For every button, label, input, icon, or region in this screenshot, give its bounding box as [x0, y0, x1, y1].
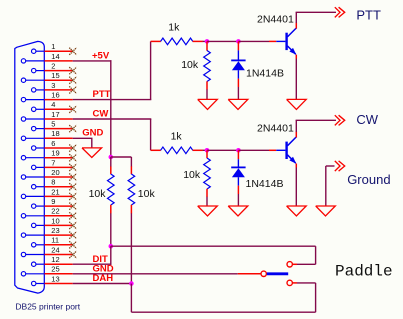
- wire DAH loop bottom: [131, 283, 315, 312]
- wire Q1 collector up: [296, 12, 336, 28]
- node C junction (R3/R4): [205, 148, 210, 153]
- pin 20 of J1 (circle, stub, number label): [21, 168, 59, 179]
- svg-text:15: 15: [51, 71, 59, 80]
- wire GND pin25 red segment: [45, 273, 73, 275]
- wire R6 bottom to DAH node: [130, 213, 132, 283]
- wire DAH pin13 to junction: [73, 283, 132, 285]
- wire DAH pin13 red segment: [45, 283, 73, 285]
- node junction DAH / paddle bottom: [129, 281, 134, 286]
- wire PTT pin16 to R1: [73, 99, 152, 101]
- svg-text:1N414B: 1N414B: [246, 178, 284, 190]
- pin 23 of J1 (circle, stub, number label): [21, 226, 59, 237]
- paddle top contact terminal (DIT): [287, 262, 292, 267]
- ground symbol below R2: [198, 99, 218, 109]
- wire GND pin18 red segment: [45, 137, 73, 139]
- svg-text:4: 4: [51, 100, 55, 109]
- svg-text:10k: 10k: [181, 59, 199, 71]
- wire node D to Q2 base: [238, 149, 285, 151]
- ground symbol below Q2 emitter: [287, 206, 307, 216]
- svg-text:DB25 printer port: DB25 printer port: [15, 302, 80, 312]
- svg-text:Paddle: Paddle: [335, 263, 393, 281]
- wire paddle top contact lead: [292, 263, 315, 265]
- ground symbol below R4: [198, 206, 218, 216]
- wire pin 15 with no-connect X: [45, 77, 77, 84]
- svg-text:6: 6: [51, 139, 55, 148]
- wire pin 7 with no-connect X: [45, 164, 77, 171]
- wire pin 3 with no-connect X: [45, 86, 77, 93]
- svg-text:24: 24: [51, 245, 59, 254]
- svg-text:2N4401: 2N4401: [257, 123, 294, 135]
- wire CW pin17 red segment: [45, 118, 73, 120]
- wire pin 22 with no-connect X: [45, 212, 77, 219]
- output port chevron CW: [335, 115, 345, 125]
- svg-text:16: 16: [51, 91, 59, 100]
- wire +5V rail to vertical riser: [73, 60, 112, 62]
- svg-text:2N4401: 2N4401: [257, 14, 294, 26]
- pin 13 of J1 (circle, stub, number label): [32, 274, 60, 285]
- wire R4 bottom lead: [206, 197, 208, 206]
- resistor R5 10k pull-up (DIT): [108, 166, 115, 213]
- pin 10 of J1 (circle, stub, number label): [32, 216, 60, 227]
- pin 22 of J1 (circle, stub, number label): [21, 207, 59, 218]
- svg-text:10: 10: [51, 216, 59, 225]
- wire DIT node down to pin12 row: [110, 246, 112, 265]
- wire pin 23 with no-connect X: [45, 232, 77, 239]
- svg-text:GND: GND: [82, 128, 103, 139]
- paddle bottom contact terminal (DAH): [287, 280, 292, 285]
- wire pin 20 with no-connect X: [45, 174, 77, 181]
- pin 6 of J1 (circle, stub, number label): [32, 139, 56, 150]
- pin 18 of J1 (circle, stub, number label): [21, 129, 59, 140]
- wire R1 to node A: [203, 40, 207, 42]
- pin 5 of J1 (circle, stub, number label): [32, 120, 56, 131]
- wire pin 19 with no-connect X: [45, 154, 77, 161]
- svg-text:PTT: PTT: [356, 8, 381, 23]
- wire pin 1 with no-connect X: [45, 48, 77, 55]
- pin 3 of J1 (circle, stub, number label): [32, 81, 56, 92]
- wire DIT pin12 to riser: [73, 263, 112, 265]
- wire paddle bottom contact lead: [292, 282, 315, 284]
- ground symbol below D2: [228, 206, 248, 216]
- wire pin 11 with no-connect X: [45, 241, 77, 248]
- resistor R2 10k pull-down (stage 1): [204, 41, 211, 89]
- svg-text:Ground: Ground: [347, 172, 390, 187]
- svg-text:1: 1: [51, 42, 55, 51]
- wire +5V from pin 14 (red segment): [45, 60, 73, 62]
- pin 17 of J1 (circle, stub, number label): [21, 110, 59, 121]
- wire R5 bottom to DIT node: [110, 213, 112, 246]
- wire pin 6 with no-connect X: [45, 145, 77, 152]
- svg-text:17: 17: [51, 110, 59, 119]
- svg-text:+5V: +5V: [92, 50, 110, 61]
- pin 2 of J1 (circle, stub, number label): [32, 62, 56, 73]
- pin 19 of J1 (circle, stub, number label): [21, 149, 59, 160]
- wire +5V vertical riser x=110.8: [110, 60, 112, 157]
- wire GND vertical drop: [91, 138, 93, 148]
- wire pin 24 with no-connect X: [45, 251, 77, 258]
- svg-text:11: 11: [51, 236, 59, 245]
- wire DIT pin12 red segment: [45, 263, 73, 265]
- pin 21 of J1 (circle, stub, number label): [21, 187, 59, 198]
- ground symbol below Q1 emitter: [287, 99, 307, 109]
- wire Q2 collector up: [296, 120, 336, 137]
- node D junction (D2): [236, 148, 241, 153]
- pin 11 of J1 (circle, stub, number label): [32, 236, 60, 247]
- svg-text:7: 7: [51, 158, 55, 167]
- diode D1 1N414B (stage 1): [231, 41, 245, 78]
- svg-text:2: 2: [51, 62, 55, 71]
- diode D2 1N414B (stage 2): [231, 150, 245, 185]
- svg-text:8: 8: [51, 178, 55, 187]
- pin 9 of J1 (circle, stub, number label): [32, 197, 56, 208]
- svg-text:14: 14: [51, 52, 59, 61]
- wire node A to node B: [207, 40, 238, 42]
- transistor Q2 2N4401 (NPN, CW driver): [285, 137, 296, 164]
- pin 8 of J1 (circle, stub, number label): [32, 178, 56, 189]
- pin 12 of J1 (circle, stub, number label): [32, 255, 60, 266]
- svg-text:1k: 1k: [168, 22, 180, 34]
- node B junction (D1): [236, 39, 241, 44]
- output port chevron PTT: [335, 7, 345, 17]
- resistor R3 1k (CW base): [151, 147, 203, 154]
- svg-text:DAH: DAH: [93, 273, 114, 284]
- resistor R4 10k pull-down (stage 2): [204, 150, 211, 197]
- resistor R1 1k (PTT base): [151, 38, 203, 45]
- node junction +5V rail split: [109, 155, 114, 160]
- wire pin 9 with no-connect X: [45, 203, 77, 210]
- wire node B to Q1 base: [238, 40, 285, 42]
- svg-text:10k: 10k: [89, 188, 107, 200]
- svg-text:CW: CW: [356, 112, 378, 127]
- wire R2 bottom lead: [206, 89, 208, 99]
- svg-text:1N414B: 1N414B: [246, 67, 284, 79]
- pin 16 of J1 (circle, stub, number label): [21, 91, 59, 102]
- svg-text:5: 5: [51, 120, 55, 129]
- wire node C to node D: [207, 149, 238, 151]
- pin 25 of J1 (circle, stub, number label): [21, 265, 59, 276]
- svg-text:12: 12: [51, 255, 59, 264]
- wire pin 5 with no-connect X: [45, 125, 77, 132]
- ground symbol below D1: [228, 99, 248, 109]
- pin 1 of J1 (circle, stub, number label): [32, 42, 56, 53]
- wire R5 top lead: [110, 157, 112, 167]
- node junction DIT / paddle top: [109, 244, 114, 249]
- wire pin 8 with no-connect X: [45, 183, 77, 190]
- wire GND pin18 to ground: [73, 137, 93, 139]
- pin 14 of J1 (circle, stub, number label): [21, 52, 59, 63]
- svg-text:3: 3: [51, 81, 55, 90]
- svg-text:25: 25: [51, 265, 59, 274]
- svg-text:23: 23: [51, 226, 59, 235]
- pin 4 of J1 (circle, stub, number label): [32, 100, 56, 111]
- svg-text:10k: 10k: [138, 188, 156, 200]
- ground symbol for Ground output: [316, 206, 336, 216]
- node A junction (R1/R2): [205, 39, 210, 44]
- svg-text:19: 19: [51, 149, 59, 158]
- wire +5V rail branch to R6: [111, 157, 132, 167]
- svg-text:18: 18: [51, 129, 59, 138]
- svg-text:22: 22: [51, 207, 59, 216]
- wire PTT vertical up to R1 left: [150, 41, 152, 99]
- svg-text:PTT: PTT: [93, 89, 111, 100]
- wire GND pin25 to paddle common: [73, 273, 238, 275]
- connector J1 DB25 printer port (body outline): [15, 41, 45, 293]
- pin 24 of J1 (circle, stub, number label): [21, 245, 59, 256]
- wire R3 to node C: [203, 149, 207, 151]
- paddle common terminal: [261, 271, 266, 276]
- wire CW vertical up to R3 left: [150, 119, 152, 150]
- wire D2 bottom lead: [237, 186, 239, 206]
- wire D1 bottom lead: [237, 79, 239, 100]
- wire Q2 emitter down: [295, 164, 297, 207]
- output port chevron Ground: [335, 161, 345, 171]
- svg-text:21: 21: [51, 187, 59, 196]
- pin 7 of J1 (circle, stub, number label): [32, 158, 56, 169]
- wire Q1 emitter down: [295, 55, 297, 100]
- wire pin 4 with no-connect X: [45, 106, 77, 113]
- wire pin 21 with no-connect X: [45, 193, 77, 200]
- svg-text:9: 9: [51, 197, 55, 206]
- pin 15 of J1 (circle, stub, number label): [21, 71, 59, 82]
- wire PTT pin16 red segment: [45, 99, 73, 101]
- svg-text:13: 13: [51, 274, 59, 283]
- wire GND red segment to paddle common contact: [238, 273, 261, 275]
- wire pin 10 with no-connect X: [45, 222, 77, 229]
- svg-text:10k: 10k: [183, 169, 201, 181]
- ground symbol at pin 18 net: [82, 148, 102, 158]
- svg-text:20: 20: [51, 168, 59, 177]
- transistor Q1 2N4401 (NPN, PTT driver): [285, 28, 296, 55]
- wire CW pin17 to R3: [73, 118, 152, 120]
- resistor R6 10k pull-up (DAH): [128, 166, 135, 213]
- wire Ground output to ground symbol: [326, 166, 335, 206]
- wire paddle top rail: [111, 246, 316, 264]
- paddle lever (blue): [267, 272, 288, 275]
- svg-text:1k: 1k: [171, 131, 183, 143]
- wire pin 2 with no-connect X: [45, 67, 77, 74]
- svg-text:CW: CW: [93, 108, 109, 119]
